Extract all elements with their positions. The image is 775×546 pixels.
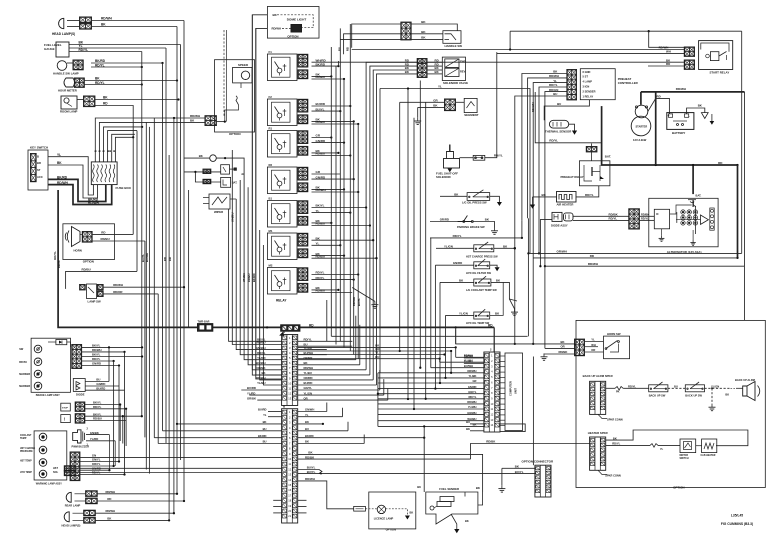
wire trunk — [183, 21, 185, 502]
wire relay out — [312, 123, 359, 125]
fuel sender box — [426, 492, 478, 524]
handle sw lamp L2 — [57, 61, 67, 71]
svg-text:YL/GN: YL/GN — [459, 311, 468, 315]
svg-text:GR: GR — [472, 379, 476, 383]
wire main line drop to computer conn — [493, 327, 495, 352]
connector speed — [205, 116, 217, 126]
svg-text:BK: BK — [466, 427, 470, 431]
svg-text:YL: YL — [316, 209, 320, 213]
svg-text:DIODE: DIODE — [76, 393, 85, 397]
svg-text:RD/BK: RD/BK — [641, 212, 649, 216]
fuse element — [97, 165, 99, 183]
connector CN-B central — [282, 409, 298, 523]
wire heavy right down — [737, 165, 739, 258]
connector brake lamp — [72, 344, 82, 368]
segment meter U3 — [464, 98, 477, 112]
wire RD/YL long mid — [430, 237, 522, 239]
left bottom verticals — [108, 347, 110, 381]
wire — [82, 356, 142, 358]
wire trunk v5 — [349, 24, 351, 351]
wire option connector feed down — [532, 357, 534, 466]
wire horn RD/BU — [92, 240, 145, 242]
svg-text:SOL: SOL — [53, 471, 59, 474]
svg-text:GN/RD: GN/RD — [453, 261, 462, 265]
svg-text:BU/YL: BU/YL — [515, 470, 524, 474]
wire relay out — [312, 289, 339, 291]
option box outline — [576, 320, 765, 487]
wire connA right rows — [298, 340, 353, 342]
battery BT1 — [667, 113, 694, 130]
wire start relay RD/WH — [352, 49, 685, 51]
wire RD long — [533, 257, 737, 259]
wire trunk v5 — [353, 121, 355, 354]
handle sw SW2 — [443, 31, 461, 44]
wire horn sw feeds — [455, 330, 457, 344]
svg-text:BU: BU — [96, 378, 100, 382]
svg-text:YL/BU: YL/BU — [304, 371, 312, 375]
connector alternator — [629, 209, 640, 229]
svg-text:RD/YL: RD/YL — [95, 63, 105, 67]
wire relay out — [312, 244, 341, 246]
wire — [668, 387, 685, 389]
svg-text:HORN: HORN — [74, 249, 82, 253]
wire battery down right — [744, 92, 746, 266]
wire feeder — [236, 199, 281, 350]
svg-text:RD/BU: RD/BU — [316, 222, 326, 226]
wire y336 long — [331, 335, 527, 337]
relay K2 — [267, 99, 297, 126]
svg-text:BK: BK — [305, 420, 309, 424]
wire relay out — [312, 110, 341, 112]
svg-text:YL/RD: YL/RD — [247, 391, 255, 395]
connector stop — [75, 402, 85, 412]
svg-text:2 SENDER: 2 SENDER — [583, 89, 596, 93]
svg-text:RD/BU: RD/BU — [316, 289, 326, 293]
wire bundle row — [378, 372, 484, 374]
svg-text:YL/WH: YL/WH — [468, 405, 477, 409]
wire — [705, 387, 731, 389]
wire relay out — [312, 222, 332, 224]
wire preheat relay stem — [591, 144, 593, 148]
svg-text:4 LAMP: 4 LAMP — [583, 80, 593, 84]
svg-text:B: B — [108, 150, 112, 152]
svg-text:RD/BU: RD/BU — [257, 341, 266, 345]
alternator bridge ground — [692, 230, 694, 240]
relay K6 — [267, 233, 297, 260]
wire battery plus up — [655, 92, 657, 99]
svg-text:OR/RD: OR/RD — [304, 376, 313, 380]
svg-text:PRESSURE: PRESSURE — [20, 451, 33, 453]
diode assy D2 — [552, 212, 562, 221]
svg-text:HST CHARGE PRESS SW: HST CHARGE PRESS SW — [466, 254, 498, 258]
svg-text:COOLANT: COOLANT — [20, 434, 32, 437]
wire key switch main down — [58, 190, 494, 327]
svg-text:MARKER: MARKER — [19, 385, 30, 388]
wire rear lamp — [75, 493, 87, 495]
svg-text:BAT.: BAT. — [696, 194, 702, 198]
connector B long left rows to trunk — [177, 423, 282, 425]
svg-text:BACK UP ALRM: BACK UP ALRM — [735, 378, 755, 382]
wire RD/WH branch — [535, 92, 601, 143]
svg-text:ACC: ACC — [37, 175, 43, 179]
wire — [80, 461, 119, 463]
wire — [82, 365, 119, 367]
fuse element — [105, 165, 107, 183]
wire key switch YL — [48, 157, 93, 195]
hour meter M1 — [64, 78, 75, 87]
wire relay out — [312, 152, 339, 154]
svg-text:BU/RD: BU/RD — [247, 386, 256, 390]
wire relay out — [312, 188, 345, 190]
wire relay out — [312, 239, 374, 241]
fuse element — [113, 165, 115, 183]
fuse element — [93, 165, 95, 183]
svg-text:BU/YL: BU/YL — [141, 254, 145, 262]
wire warn2 — [85, 415, 142, 417]
svg-text:HYD OIL TEMP SW: HYD OIL TEMP SW — [466, 321, 490, 325]
wire bundle row — [378, 414, 484, 416]
wire — [67, 62, 74, 64]
svg-text:TEMP: TEMP — [20, 438, 27, 440]
svg-text:RD/BK: RD/BK — [305, 455, 315, 459]
svg-text:PREHEAT RELAY: PREHEAT RELAY — [561, 175, 584, 179]
svg-text:BK: BK — [107, 517, 111, 521]
svg-text:RD: RD — [309, 323, 314, 327]
svg-text:YL: YL — [438, 85, 442, 89]
svg-text:BK: BK — [305, 440, 309, 444]
wire RD/WH drop to horn OR — [544, 266, 546, 348]
connector horn sw — [574, 339, 584, 356]
svg-text:BK/RD: BK/RD — [316, 62, 326, 66]
wire trunk — [162, 63, 164, 431]
wire relay out — [312, 178, 354, 180]
svg-text:B1: B1 — [269, 197, 273, 201]
wire bundle row — [378, 420, 484, 422]
connector start relay — [684, 47, 694, 57]
svg-text:RD/BK: RD/BK — [559, 350, 568, 354]
svg-text:BACK UP ALRM SPKR: BACK UP ALRM SPKR — [583, 374, 613, 378]
wire trunk — [165, 48, 167, 443]
warning lamp — [39, 470, 47, 478]
connector relay K2 — [298, 99, 308, 112]
svg-text:RD/WH: RD/WH — [549, 74, 559, 78]
svg-text:RD/WH: RD/WH — [588, 262, 598, 266]
svg-text:BU: BU — [338, 47, 342, 51]
svg-text:B: B — [241, 173, 245, 175]
wires connector C to computer unit — [500, 355, 505, 357]
svg-text:OR/RD: OR/RD — [440, 218, 449, 222]
wire diode assy left drop — [540, 220, 552, 267]
connector relay K7 — [298, 268, 308, 281]
small connector BU/YL left — [65, 467, 282, 469]
svg-text:GN/YL: GN/YL — [304, 386, 313, 390]
computer unit box — [505, 353, 523, 431]
svg-text:SPEED: SPEED — [238, 63, 249, 67]
wire preheat relay heavy out — [602, 158, 738, 165]
licence lamp box — [369, 492, 416, 529]
head lamp bottom L6 — [64, 512, 69, 522]
wire fuel solenoid — [460, 157, 474, 159]
fuse element — [101, 165, 103, 183]
svg-text:START RELAY: START RELAY — [710, 71, 730, 75]
svg-text:RD: RD — [657, 94, 661, 98]
horn box — [63, 224, 115, 260]
wire alt internal — [661, 229, 663, 236]
svg-text:SPKR CONN: SPKR CONN — [607, 418, 623, 422]
wire key switch BK — [48, 165, 98, 198]
svg-text:3 IGN: 3 IGN — [583, 85, 590, 89]
svg-text:BK: BK — [304, 361, 308, 365]
wire trunk — [132, 137, 134, 234]
wire trunk — [153, 118, 155, 438]
wire to handle sw — [352, 24, 402, 48]
wire gnd — [490, 196, 500, 202]
svg-text:RD/WH: RD/WH — [352, 297, 356, 306]
svg-text:RD/WH: RD/WH — [676, 87, 686, 91]
wire trunk — [157, 294, 159, 444]
svg-text:RD: RD — [168, 257, 172, 261]
svg-text:SPKR CONN: SPKR CONN — [605, 474, 621, 478]
wire RD/BK top bottom — [471, 444, 590, 460]
fuse box top feeds — [95, 118, 205, 162]
connector head lamp — [79, 17, 91, 23]
svg-text:B: B — [102, 150, 106, 152]
horn H1 — [72, 227, 81, 247]
wire horn RD — [92, 233, 133, 235]
wire heavy to starter — [655, 98, 657, 165]
svg-text:RD/BU: RD/BU — [316, 75, 326, 79]
connector — [83, 96, 95, 107]
svg-text:F1: F1 — [269, 50, 273, 54]
diode block D3 — [73, 379, 85, 392]
svg-text:BK: BK — [261, 371, 265, 375]
wire alt bat down — [692, 200, 694, 207]
warning lamp — [39, 433, 47, 441]
svg-text:BATTERY: BATTERY — [672, 131, 685, 135]
connector relay K5 — [298, 201, 308, 214]
horn sw S8 — [604, 336, 630, 359]
svg-text:BRAKE LAMP ASSY: BRAKE LAMP ASSY — [36, 394, 60, 397]
svg-text:RD/YL: RD/YL — [549, 139, 558, 143]
dome wiring dashed — [277, 15, 313, 28]
svg-text:BU: BU — [674, 384, 678, 388]
wire — [69, 44, 181, 46]
connector warn2 — [75, 414, 85, 424]
HST charge press sw S3 — [436, 247, 474, 249]
wire relay out — [312, 212, 351, 214]
svg-text:OR/BK: OR/BK — [247, 396, 256, 400]
svg-text:OR: OR — [591, 348, 595, 352]
wire segment link — [456, 101, 465, 103]
relay K7 — [267, 268, 297, 295]
wire fuel gnd — [451, 514, 457, 529]
wire feeder — [260, 230, 282, 380]
wire feeder — [256, 28, 282, 375]
wire RD/WH long — [545, 265, 745, 267]
wire relay out — [312, 257, 377, 259]
wire mid verticals — [407, 89, 409, 400]
wire bundle top rows — [456, 356, 484, 358]
svg-text:BK: BK — [101, 23, 106, 27]
svg-text:RD/YL: RD/YL — [57, 260, 61, 268]
svg-text:BU: BU — [553, 92, 557, 96]
svg-text:+: + — [668, 114, 670, 118]
svg-text:RD: RD — [346, 47, 350, 51]
wire trunk v5 — [330, 47, 332, 336]
svg-text:RD/BU: RD/BU — [316, 254, 326, 258]
svg-text:RD/YL: RD/YL — [609, 217, 618, 221]
wire key switch BK/RD heavy — [48, 179, 106, 201]
connector — [74, 78, 84, 88]
wire — [82, 351, 125, 353]
svg-text:5 ST: 5 ST — [583, 75, 589, 79]
wire trunk v5 — [337, 61, 339, 66]
svg-text:OPTION: OPTION — [673, 486, 685, 490]
svg-text:OR/BK: OR/BK — [304, 356, 313, 360]
svg-text:GN/YL: GN/YL — [468, 390, 477, 394]
svg-text:THERMAL SENSOR: THERMAL SENSOR — [545, 130, 571, 134]
parking brake sw S2 — [457, 216, 472, 222]
svg-text:IC: IC — [656, 212, 659, 216]
svg-text:BU/RD: BU/RD — [304, 381, 313, 385]
wire — [80, 474, 125, 476]
svg-text:ROOM LAMP: ROOM LAMP — [60, 110, 78, 114]
diode top — [56, 340, 67, 345]
svg-text:OPTION CONNECTOR: OPTION CONNECTOR — [522, 459, 554, 463]
svg-text:RD/YL: RD/YL — [53, 251, 57, 260]
wire trunk — [136, 131, 138, 272]
cab heater box — [702, 439, 717, 453]
fuel shut-off solenoid Y1 — [444, 159, 460, 169]
svg-text:PARKING BRAKE SW: PARKING BRAKE SW — [457, 225, 485, 229]
svg-text:RD/WH: RD/WH — [101, 17, 112, 21]
wire YC long — [380, 89, 530, 254]
wire diode down — [527, 218, 529, 336]
svg-text:SW: SW — [19, 348, 24, 351]
wire feeder — [244, 200, 282, 360]
wire fuel right loop — [478, 492, 483, 505]
wire relay out — [312, 173, 341, 175]
svg-text:RD/WH: RD/WH — [113, 283, 123, 287]
svg-text:L/G COOLANT TEMP SW: L/G COOLANT TEMP SW — [466, 288, 497, 292]
svg-text:HYD TEMP: HYD TEMP — [20, 472, 32, 474]
wire bundle row — [378, 377, 484, 379]
svg-text:YL/RD: YL/RD — [90, 437, 98, 441]
wire bundle row — [378, 388, 484, 390]
pwm buzzer B3 — [73, 430, 81, 443]
wire top loop — [510, 30, 742, 32]
svg-text:YL/RD: YL/RD — [257, 356, 265, 360]
svg-text:HEATER SPKR: HEATER SPKR — [588, 431, 608, 435]
wire relay out — [312, 137, 332, 139]
svg-text:DIODE-ASSY: DIODE-ASSY — [551, 224, 568, 228]
svg-text:OR/WH: OR/WH — [557, 249, 567, 253]
wire backup gnd — [711, 388, 713, 404]
svg-text:SOLENOID: SOLENOID — [436, 175, 451, 179]
svg-text:STOP: STOP — [62, 408, 68, 410]
lamp sw S7 — [80, 284, 86, 290]
svg-text:BK/YL: BK/YL — [92, 344, 101, 348]
air heater R2 — [557, 192, 577, 203]
wire relay out — [312, 65, 339, 67]
svg-text:SOLENOID VALVE: SOLENOID VALVE — [443, 81, 468, 85]
svg-text:WARNING LAMP ASSY: WARNING LAMP ASSY — [36, 483, 62, 486]
svg-text:BU: BU — [263, 440, 267, 444]
back up sw 2 — [685, 385, 704, 392]
connector B left row labels — [268, 411, 282, 413]
svg-text:GN/RD: GN/RD — [316, 139, 327, 143]
wire trunk v5 — [357, 124, 359, 359]
svg-text:OPTION: OPTION — [287, 34, 298, 38]
svg-text:B: B — [112, 150, 116, 152]
arrow marker connector A — [279, 332, 284, 336]
connector solenoid valve — [417, 58, 427, 77]
svg-text:OR/BK: OR/BK — [256, 366, 265, 370]
svg-text:BR: BR — [37, 161, 41, 165]
svg-text:R1: R1 — [269, 127, 273, 131]
wire heater RD/YL — [606, 444, 650, 446]
connector inline 3pin — [281, 325, 300, 332]
svg-text:RD/YL: RD/YL — [316, 271, 325, 275]
svg-text:BU: BU — [305, 427, 309, 431]
speed option box — [215, 60, 255, 132]
fuel sender unit — [440, 497, 454, 502]
wire speedo down — [240, 83, 242, 88]
warning lamp — [39, 446, 47, 454]
connector CN-A central — [282, 335, 298, 406]
wire comp top rows — [464, 357, 484, 359]
svg-text:RD/WH: RD/WH — [57, 181, 68, 185]
wire feeder — [252, 15, 281, 370]
svg-text:BK: BK — [561, 340, 565, 344]
preheat controller U4 — [580, 69, 615, 100]
wire bundle spine — [377, 373, 379, 427]
svg-text:RD/BU: RD/BU — [316, 120, 326, 124]
indicator lamp — [34, 345, 42, 353]
svg-text:BK: BK — [199, 154, 203, 158]
svg-text:BACK UP SW: BACK UP SW — [649, 394, 666, 398]
svg-text:RD/WH: RD/WH — [106, 509, 115, 513]
wire — [80, 469, 110, 471]
fuse box F1 — [91, 162, 117, 185]
svg-text:M2: M2 — [269, 264, 273, 268]
wire key switch RD/WH heavy — [48, 185, 112, 205]
svg-text:GN/YL: GN/YL — [92, 458, 101, 462]
svg-text:HYD OIL FILTER SW: HYD OIL FILTER SW — [466, 271, 492, 275]
svg-text:RD/YL: RD/YL — [494, 154, 503, 158]
wire solenoid pins — [428, 61, 443, 63]
wire solenoid feeders — [366, 62, 418, 370]
rear lamp L5 — [66, 492, 71, 502]
wire trunk — [144, 241, 146, 437]
svg-text:YL: YL — [57, 153, 61, 157]
svg-text:BU/RD: BU/RD — [258, 408, 267, 412]
svg-text:RD/WH: RD/WH — [272, 27, 281, 31]
dome light box — [267, 7, 319, 39]
wire trunk — [180, 45, 182, 461]
L/G coolant temp sw S5 — [440, 281, 474, 283]
svg-text:R2: R2 — [269, 163, 273, 167]
relay K4 — [267, 167, 297, 194]
svg-text:HST: HST — [53, 467, 58, 470]
wire relay out — [312, 279, 354, 281]
wire trunk — [173, 118, 175, 513]
svg-text:GN/WH: GN/WH — [305, 408, 314, 412]
svg-text:BU: BU — [263, 427, 267, 431]
wire trunk v5 — [343, 79, 345, 348]
svg-text:RD/YL: RD/YL — [79, 48, 89, 52]
wire trunk v5 — [335, 66, 337, 344]
